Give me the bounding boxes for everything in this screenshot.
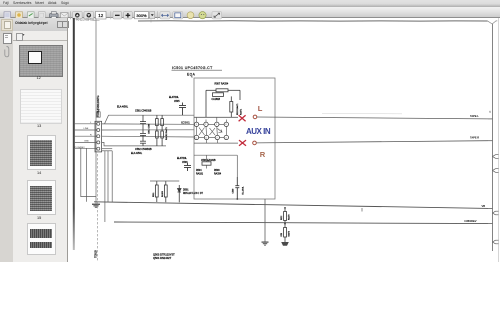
connector pins <box>97 122 100 150</box>
scan streak <box>322 112 402 114</box>
copy icon <box>39 11 46 18</box>
resistor R511 <box>155 181 158 202</box>
vertical bus right <box>492 24 494 251</box>
round icon 1 <box>187 11 194 18</box>
wire VB <box>94 202 488 209</box>
top dash left bus <box>93 20 100 22</box>
wires connector to IC <box>102 115 194 151</box>
svg-text:TDB1 TRN124STG: TDB1 TRN124STG <box>97 95 100 117</box>
svg-text:7: 7 <box>216 137 218 139</box>
thumb page16 <box>27 223 56 255</box>
resistor network RA181 <box>156 115 164 146</box>
organizer icon <box>16 11 23 18</box>
svg-text:TDB1B: TDB1B <box>94 250 97 258</box>
thumb page14 <box>27 135 56 171</box>
IC box <box>194 78 275 199</box>
round icon 2 <box>199 11 206 18</box>
open icon <box>4 11 11 18</box>
wire FWD/REV <box>114 222 488 224</box>
wire down 1 <box>104 151 106 222</box>
svg-text:1: 1 <box>216 124 218 126</box>
IC pin row 1 <box>194 122 228 126</box>
thumb page15 <box>27 180 56 216</box>
svg-text:ELA 4/50L: ELA 4/50L <box>117 106 129 109</box>
resistor R502 <box>164 181 167 202</box>
svg-text:FWD/REV: FWD/REV <box>465 219 477 223</box>
svg-text:AUX IN: AUX IN <box>246 127 271 136</box>
annotation X left <box>239 115 246 121</box>
svg-text:C509: C509 <box>233 188 235 194</box>
dash line TDB1B <box>97 154 99 262</box>
svg-text:TAPE L: TAPE L <box>470 114 479 118</box>
svg-text:TAPE R: TAPE R <box>470 136 479 140</box>
bus tag 3 <box>493 211 499 215</box>
prev page <box>73 11 83 19</box>
bus tag 1 <box>493 155 499 159</box>
svg-text:3: 3 <box>196 124 198 126</box>
svg-text:6: 6 <box>206 137 208 139</box>
svg-text:RA181 RA471: RA181 RA471 <box>165 126 168 140</box>
IC pin glyphs <box>196 124 228 139</box>
svg-text:VB: VB <box>482 204 486 208</box>
bus tag 2 <box>493 169 499 173</box>
svg-text:R7N: R7N <box>281 232 283 236</box>
left bus line <box>95 21 97 204</box>
svg-text:R513 RA471: R513 RA471 <box>236 103 239 115</box>
resistor R513 <box>230 96 233 117</box>
svg-text:R511: R511 <box>153 193 155 197</box>
svg-text:D501: D501 <box>183 190 189 192</box>
wire box to ground <box>264 199 266 242</box>
ground left bus <box>92 204 100 208</box>
svg-text:Q504 RN1402T: Q504 RN1402T <box>153 256 172 260</box>
capacitor C507 <box>213 93 224 97</box>
tape L bus link <box>488 118 493 120</box>
VB bus link <box>488 207 493 209</box>
svg-text:RA473: RA473 <box>288 215 291 221</box>
page top edge <box>138 20 488 22</box>
bus tag 4 <box>493 240 499 244</box>
svg-text:C505: C505 <box>174 101 180 103</box>
tick on top edge <box>150 19 152 22</box>
svg-text:CA181B: CA181B <box>212 98 221 101</box>
pin labels <box>75 122 93 149</box>
resistor R512 <box>284 207 286 209</box>
printer icon <box>50 11 59 18</box>
wire TAPE R <box>256 141 488 143</box>
svg-text:Q503 DTR123YST: Q503 DTR123YST <box>153 253 175 257</box>
minus btn <box>113 11 122 19</box>
node circle L <box>253 115 257 119</box>
svg-text:L: L <box>258 104 263 113</box>
svg-text:8: 8 <box>225 124 227 126</box>
svg-text:LINE: LINE <box>84 128 89 130</box>
capacitor C560 <box>140 115 146 130</box>
pin wires from page edge <box>75 124 97 149</box>
zoom combo <box>135 11 155 18</box>
svg-text:EL-4/16L: EL-4/16L <box>243 185 245 194</box>
plus btn <box>124 11 133 19</box>
svg-text:5: 5 <box>196 137 198 139</box>
component above connector <box>97 109 101 117</box>
IC pin row 2 <box>194 135 228 139</box>
svg-text:GND: GND <box>84 141 89 143</box>
scanned page edge stripe <box>73 18 75 250</box>
svg-text:R: R <box>260 150 266 159</box>
wire inside box lower <box>194 155 237 177</box>
thumb page12 selected <box>19 45 63 78</box>
svg-text:RA183: RA183 <box>161 191 164 197</box>
diode D501 <box>178 185 182 202</box>
bus entry notch <box>488 21 498 24</box>
capacitor C562 <box>140 137 146 146</box>
svg-text:ELA 4/50L: ELA 4/50L <box>131 152 143 155</box>
svg-text:C561 C54001B: C561 C54001B <box>135 109 152 112</box>
save icon <box>28 11 35 18</box>
email icon <box>61 12 69 17</box>
capacitor C508 <box>202 162 211 165</box>
svg-text:4: 4 <box>225 137 227 139</box>
capacitor C561 <box>140 130 146 137</box>
svg-text:RA473: RA473 <box>288 231 291 237</box>
svg-text:RD5.2A 5 A B C DT: RD5.2A 5 A B C DT <box>183 192 204 195</box>
svg-text:R508: R508 <box>214 170 220 172</box>
expand icon <box>212 11 222 18</box>
page field <box>96 11 107 19</box>
tape R bus link <box>488 140 493 142</box>
wire left elbow <box>81 148 96 197</box>
window chrome <box>0 0 500 7</box>
svg-text:R512: R512 <box>281 216 283 220</box>
svg-text:R507 RA334: R507 RA334 <box>215 83 229 86</box>
wire above R511 <box>150 180 179 182</box>
resistor R519 <box>284 223 286 225</box>
svg-text:EL47/16L: EL47/16L <box>169 97 180 99</box>
node circle R <box>253 141 257 145</box>
ground mid <box>262 242 269 246</box>
svg-text:IC501: IC501 <box>181 121 190 125</box>
svg-text:P.ON/REV: P.ON/REV <box>75 147 86 149</box>
svg-text:R504: R504 <box>196 170 202 172</box>
fit page icon <box>173 11 183 18</box>
next page <box>84 11 94 19</box>
wire L channel <box>194 116 238 118</box>
connector TDB1 body <box>95 121 102 152</box>
svg-text:RA334: RA334 <box>214 173 222 176</box>
wire R channel <box>194 142 238 144</box>
svg-text:C561 C560: C561 C560 <box>149 123 151 134</box>
wire down 3 <box>111 151 113 202</box>
svg-text:5: 5 <box>490 112 492 114</box>
wire down 2 <box>107 151 109 202</box>
fit width icon <box>160 11 170 18</box>
svg-text:RA181: RA181 <box>196 173 204 176</box>
wire left vb <box>85 148 87 202</box>
VB stub <box>361 208 363 212</box>
svg-text:C508 EA181B: C508 EA181B <box>201 159 216 162</box>
thumb page13 <box>20 89 62 124</box>
ground R519 <box>281 242 289 246</box>
op-amp body wires <box>197 117 227 143</box>
svg-text:2: 2 <box>205 124 207 126</box>
sidebar <box>0 18 67 31</box>
svg-text:EQA: EQA <box>187 72 196 76</box>
svg-text:RA471: RA471 <box>240 108 243 115</box>
wire TAPE L <box>257 117 488 119</box>
svg-text:EL47/16L: EL47/16L <box>177 158 188 160</box>
svg-text:C562 C540B1B: C562 C540B1B <box>135 148 152 151</box>
svg-text:IC501 UPC4570G.CT: IC501 UPC4570G.CT <box>172 66 213 70</box>
FWD bus link <box>488 223 493 225</box>
annotation X right <box>239 140 246 146</box>
EQA lead <box>191 76 193 78</box>
